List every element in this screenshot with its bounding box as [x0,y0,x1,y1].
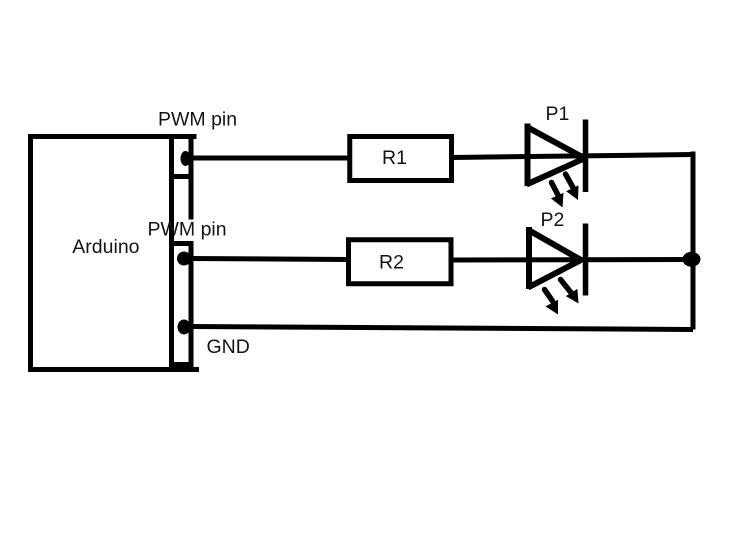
pin header box 1 (PWM pin 1) [172,137,192,177]
LED P2 [528,224,586,315]
svg-text:P1: P1 [546,103,570,125]
wire R1 to LED P1 to right rail [452,155,693,158]
svg-text:PWM pin: PWM pin [158,109,237,131]
svg-text:PWM pin: PWM pin [148,219,227,241]
pin header box 2 (PWM pin 2 + GND) [172,244,192,365]
resistor R2 body [349,240,452,284]
Arduino board body [31,137,172,370]
wire right rail vertical [691,152,696,330]
resistor R1 body [350,137,452,181]
pin dot PWM1 [181,151,191,166]
Arduino top edge extension over pin header [172,134,197,139]
pin header mid segment [189,174,194,220]
svg-text:R1: R1 [382,147,407,169]
svg-text:Arduino: Arduino [72,236,139,258]
wire PWM pin 2 to R2 [189,259,348,260]
LED P1 [526,120,586,208]
svg-text:GND: GND [207,336,250,358]
pin dot GND [178,320,191,335]
svg-text:P2: P2 [541,209,565,231]
wire PWM pin 1 to R1 [189,156,349,161]
pin dot PWM2 [177,252,191,266]
junction node on right rail [683,252,701,267]
Arduino bottom edge extension under pin header [172,367,200,372]
wire GND rail [189,327,693,330]
wire R2 to LED P2 to junction [451,257,693,263]
svg-text:R2: R2 [379,252,404,274]
